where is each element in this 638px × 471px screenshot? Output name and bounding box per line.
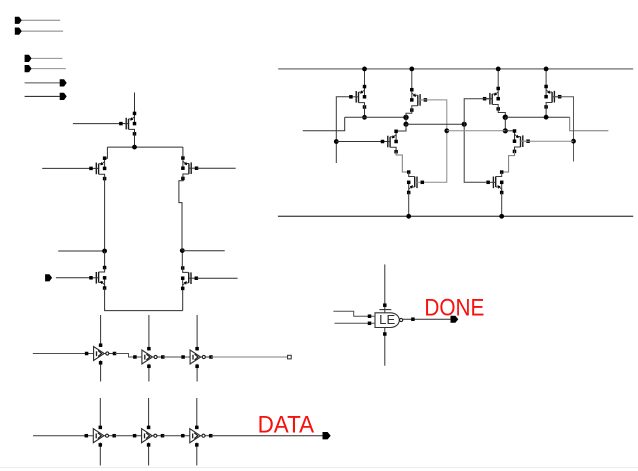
wire: n1 left corner to stub xyxy=(303,117,345,130)
pin P1 (input) xyxy=(15,17,60,24)
wire: M13 source to bottom rail xyxy=(501,193,503,217)
pin P2 (input) xyxy=(15,28,63,35)
wire: column 3 upper (row1) xyxy=(196,315,198,350)
wire: gate line of M1 xyxy=(73,123,121,125)
buffer U6 xyxy=(181,429,212,443)
wire: middle-left stub xyxy=(58,250,104,252)
transistor M2 (left upper) xyxy=(89,156,106,180)
wire: row1 output line xyxy=(211,356,288,358)
junction dot n2' xyxy=(503,128,508,133)
junction dot line A / riser3 xyxy=(462,122,467,127)
wire: left vertical mid node to M4 xyxy=(104,251,106,268)
transistor M4 (left lower, flipped) xyxy=(89,266,106,290)
wire: n1' down to node n2' xyxy=(504,117,506,131)
wire: column 3 lower (row2) xyxy=(196,443,198,466)
pin square col3 top (row2) xyxy=(195,426,199,430)
junction dot riser2/line B xyxy=(444,128,449,133)
wire: row2 output line to DATA xyxy=(211,435,323,437)
wire: rail drop to M11 xyxy=(545,69,547,87)
transistor M1 (top of left block) xyxy=(119,112,136,136)
open end square row1 xyxy=(288,355,292,359)
wire: column 2 upper (row2) xyxy=(148,398,150,429)
wire: rail drop to M10 xyxy=(497,69,499,89)
wire: loop left upper segment xyxy=(105,147,108,160)
wire: column 2 upper (row1) xyxy=(148,315,150,350)
pin square col3 bottom (row1) xyxy=(195,365,199,369)
transistor M6 (upper left of latch) xyxy=(349,85,366,109)
wire: top horizontal of loop xyxy=(107,146,182,148)
wire: M9 source to bottom rail xyxy=(408,193,410,217)
wire: loop right upper segment xyxy=(182,147,184,158)
wire: cross-coupling line B xyxy=(447,130,506,132)
wire: gate riser of M11 and M12 xyxy=(552,97,573,162)
wire: column 1 upper (row1) xyxy=(100,315,102,347)
wire: loop bottom-left segment xyxy=(105,288,183,311)
wire: column 3 upper (row2) xyxy=(196,398,198,429)
buffer U2 xyxy=(133,350,164,364)
wire: M8 source jog down to M9 xyxy=(396,152,407,172)
pin square on LE top wire xyxy=(383,303,387,307)
wire: column 3 lower (row1) xyxy=(196,364,198,382)
LE trigger bar xyxy=(379,309,391,311)
wire: node n1' horizontal xyxy=(505,116,569,118)
transistor M8 (middle left of latch) xyxy=(381,130,398,154)
junction dot M11/n1' xyxy=(544,115,549,120)
pin square col1 bottom (row2) xyxy=(99,443,103,447)
junction dot riser4/M12 gate xyxy=(571,139,576,144)
transistor M5 (right lower, flipped) xyxy=(181,266,198,290)
wire: M7 gate to riser x=446.8 down to M9 gate xyxy=(418,100,447,182)
wire: n2' to M12 drain xyxy=(505,130,513,132)
wire: column 2 lower (row1) xyxy=(148,364,150,382)
node DONE output arrow xyxy=(451,316,459,323)
transistor M11 (upper right of latch) xyxy=(544,85,561,109)
buffer U1 xyxy=(85,347,116,361)
transistor M7 (upper mid-left of latch) xyxy=(410,88,427,112)
wire: rail drop to M7 xyxy=(411,69,413,90)
wire: drain stub above M1 xyxy=(134,93,136,114)
pin square on LE bottom wire xyxy=(383,332,387,336)
wire: M10 gate to riser x=464.2 down to M13 gate xyxy=(464,99,492,183)
junction dot riser/M8 gate xyxy=(334,139,339,144)
wire: row2 U5 to U6 xyxy=(163,435,190,437)
wire: M1 source down to top loop node xyxy=(134,134,136,147)
wire: M12 source jog down to M13 xyxy=(504,152,515,173)
pin P5 (output) xyxy=(25,79,67,86)
wire: column 1 lower (row2) xyxy=(99,443,101,466)
wire: node n1 horizontal xyxy=(345,116,406,118)
pin square col3 top (row1) xyxy=(195,347,199,351)
wire: M6 source down to node n1 xyxy=(364,107,366,117)
pin square col3 bottom (row2) xyxy=(195,443,199,447)
wire: LE input 2 (lower) xyxy=(335,322,376,324)
junction dot M13/bottom rail xyxy=(499,214,504,219)
transistor M12 (middle right of latch) xyxy=(513,129,530,153)
wire: top power rail xyxy=(278,68,633,70)
wire: n1' right corner to stub xyxy=(570,117,609,131)
junction dot rail/M10 xyxy=(496,67,501,72)
wire: column 1 lower (row1) xyxy=(100,360,102,381)
wire: M10 source jog to n1' xyxy=(498,109,505,117)
transistor M13 (bottom right of latch, flipped) xyxy=(486,170,503,194)
pin square col1 bottom (row1) xyxy=(99,361,103,365)
pin square col1 top (row1) xyxy=(99,343,103,347)
transistor M10 (upper mid-right of latch) xyxy=(483,87,500,111)
pin P4 (input) xyxy=(25,65,66,72)
op-amp U7 (LE latch-enable gate body) xyxy=(375,312,399,327)
junction dot n1 xyxy=(403,115,408,120)
wire: middle-right stub xyxy=(182,250,224,252)
pin square col1 top (row2) xyxy=(99,426,103,430)
pin square col2 top (row1) xyxy=(147,347,151,351)
wire: gate line of M12 xyxy=(521,140,574,142)
wire: left vertical M2 to mid node xyxy=(104,179,106,251)
pin square col2 bottom (row2) xyxy=(147,443,151,447)
pin square LE input 1 xyxy=(368,314,372,318)
wire: cross-coupling line A xyxy=(406,123,464,125)
junction dot mid-left xyxy=(102,249,107,254)
pin square LE input 2 xyxy=(368,322,372,326)
wire: gate line of M3 xyxy=(197,167,236,169)
wire: column 1 upper (row2) xyxy=(99,398,101,429)
wire: right vertical mid node to M5 xyxy=(181,251,183,268)
LE output bubble xyxy=(400,318,403,321)
wire: bottom power rail xyxy=(278,215,633,217)
pin P7 (gate input of M4) xyxy=(45,274,91,281)
wire: gate line of M5 xyxy=(197,277,238,279)
wire: rail drop to M6 xyxy=(364,69,366,87)
wire: LE bottom vertical xyxy=(384,328,386,366)
wire: LE input 1 (upper) xyxy=(333,311,375,316)
node DATA output arrow xyxy=(323,432,331,439)
wire: gate line of M2 xyxy=(42,167,91,169)
wire: LE top vertical xyxy=(384,264,386,312)
svg-text:LE: LE xyxy=(379,312,395,327)
wire: row2 U4 to U5 xyxy=(114,435,141,437)
pin square on LE output xyxy=(411,317,415,321)
junction dot rail/M11 xyxy=(544,67,549,72)
wire: M7 source jog to n1 xyxy=(406,110,412,117)
buffer U5 xyxy=(133,429,164,443)
wire: M11 source down to n1' line xyxy=(545,107,547,117)
junction dot rail/M6 xyxy=(362,67,367,72)
junction dot on top loop xyxy=(132,145,137,150)
wire: n1 down to node n2 xyxy=(405,117,407,124)
wire: column 2 lower (row2) xyxy=(148,443,150,466)
junction dot rail/M7 xyxy=(409,67,414,72)
junction dot mid-right xyxy=(180,248,185,253)
buffer U4 xyxy=(85,429,116,443)
buffer U3 xyxy=(181,350,212,364)
wire: n2 jog to M8 drain xyxy=(398,124,407,131)
junction dot n1' xyxy=(503,115,508,120)
window border line (decor) xyxy=(0,467,638,469)
wire: row1 input line xyxy=(33,353,94,355)
wire: right vertical with jog below M3 xyxy=(179,179,183,251)
transistor M3 (right upper) xyxy=(181,156,198,180)
junction dot M6/n1 xyxy=(362,115,367,120)
wire: gate line of M8 xyxy=(336,141,390,143)
svg-text:DONE: DONE xyxy=(424,294,484,321)
junction dot M9/bottom rail xyxy=(406,214,411,219)
wire: LE output line xyxy=(403,318,451,320)
wire: row1 U2 to U3 xyxy=(163,356,190,358)
pin P6 (output) xyxy=(25,93,67,100)
pin square col2 top (row2) xyxy=(147,426,151,430)
pin P3 (input) xyxy=(25,55,63,62)
wire: row2 input line xyxy=(33,435,93,437)
wire: gate riser of M6 and M8 xyxy=(336,97,350,163)
transistor M9 (bottom left of latch, flipped) xyxy=(407,170,424,194)
label DATA xyxy=(258,411,315,438)
wire: row1 jog U1 to U2 xyxy=(115,354,142,358)
pin square col2 bottom (row1) xyxy=(147,365,151,369)
junction dot n2 xyxy=(403,122,408,127)
svg-text:DATA: DATA xyxy=(258,411,315,438)
label DONE xyxy=(424,294,484,321)
wire: loop right lower segment xyxy=(182,288,184,310)
